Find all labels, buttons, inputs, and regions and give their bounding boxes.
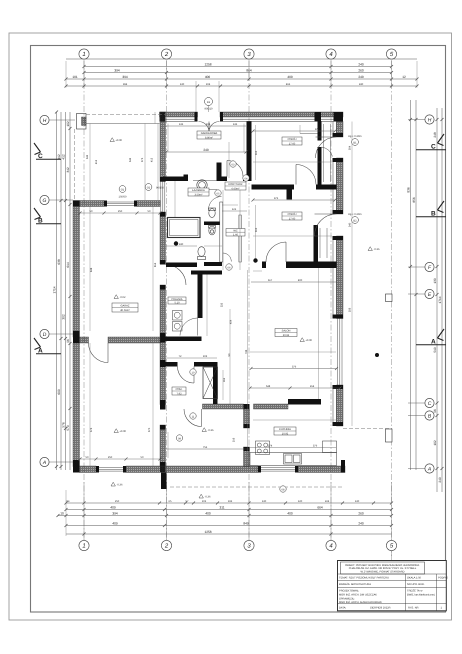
svg-text:A: A bbox=[427, 467, 432, 473]
dim top wall 136/104/136 row bbox=[166, 123, 247, 126]
bedroom05 closet wall vertical bbox=[318, 122, 322, 141]
dim salon row 548/214 bbox=[249, 385, 342, 390]
label kotlownia bbox=[172, 387, 186, 395]
boiler room walls bbox=[166, 362, 178, 367]
svg-text:SPRAWDZIŁ:: SPRAWDZIŁ: bbox=[339, 597, 355, 600]
level mark terrace bbox=[110, 138, 123, 142]
svg-text:2: 2 bbox=[164, 543, 169, 550]
dim bedroom05 376 bbox=[252, 128, 337, 133]
top axis line bbox=[66, 58, 417, 60]
window spec circle 150/50 bbox=[119, 186, 127, 199]
svg-text:1: 1 bbox=[82, 543, 85, 550]
svg-text:POKÓJ: POKÓJ bbox=[288, 137, 297, 141]
label korytarz bbox=[225, 182, 246, 190]
svg-text:250: 250 bbox=[118, 210, 123, 213]
svg-text:3.50m²: 3.50m² bbox=[194, 193, 202, 196]
entrance door leaf+arc in top wall bbox=[199, 122, 220, 133]
axis circle E right bbox=[408, 289, 434, 298]
level mark garage bbox=[114, 295, 126, 299]
spec circles corridor bbox=[176, 161, 286, 492]
section marker A right bbox=[416, 329, 446, 346]
svg-text:7.92: 7.92 bbox=[176, 392, 182, 395]
kitchen top wall hatched bbox=[203, 404, 289, 409]
svg-text:214: 214 bbox=[310, 385, 315, 388]
chimney shaft with X bbox=[203, 367, 218, 399]
axis circle A left bbox=[40, 457, 73, 466]
svg-text:102: 102 bbox=[66, 121, 70, 127]
svg-text:400: 400 bbox=[298, 279, 303, 282]
svg-text:H: H bbox=[43, 118, 47, 124]
axis circle C right bbox=[408, 398, 434, 407]
svg-text:504: 504 bbox=[349, 145, 352, 150]
svg-text:BWGJ architektonicznej: BWGJ architektonicznej bbox=[407, 593, 435, 596]
svg-text:DATA:: DATA: bbox=[339, 606, 347, 609]
right wall balcony door 1 leaf+arc bbox=[316, 137, 337, 158]
wc label box bbox=[226, 229, 245, 237]
axis circle H right bbox=[408, 115, 434, 124]
svg-text:D1: D1 bbox=[207, 101, 211, 104]
dim row under bedroom06 400 bbox=[251, 279, 337, 282]
pralnia south wall bbox=[166, 337, 202, 342]
svg-text:-0.02: -0.02 bbox=[120, 296, 126, 299]
level mark right terrace bbox=[368, 247, 380, 251]
svg-text:256: 256 bbox=[349, 307, 352, 312]
top dimension row 4 ticks bbox=[65, 85, 419, 88]
toilet 1 bbox=[209, 208, 216, 217]
svg-text:130: 130 bbox=[433, 278, 437, 284]
svg-text:17.60: 17.60 bbox=[289, 217, 296, 220]
door spec circle right 2 bbox=[348, 213, 361, 223]
main spine wall (x160) hatched/black bbox=[160, 112, 166, 467]
svg-text:548: 548 bbox=[266, 385, 271, 388]
svg-text:240: 240 bbox=[179, 243, 184, 246]
svg-text:-0.36: -0.36 bbox=[374, 248, 380, 251]
svg-text:510: 510 bbox=[433, 347, 437, 353]
svg-text:342: 342 bbox=[66, 167, 70, 173]
right vertical dim chains bbox=[409, 100, 444, 492]
label bedroom 06 bbox=[282, 212, 302, 220]
svg-text:A: A bbox=[42, 460, 47, 466]
svg-text:638: 638 bbox=[90, 267, 93, 272]
svg-text:GARAŻ: GARAŻ bbox=[121, 304, 130, 308]
right wall balcony door 2 leaf+arc bbox=[315, 214, 337, 236]
wc wall bbox=[166, 263, 197, 268]
level mark salon bbox=[300, 338, 313, 342]
kitchen stove 4 burners bbox=[256, 441, 270, 455]
right wall inner face line bbox=[333, 122, 337, 427]
dim salon 376 bbox=[250, 366, 339, 371]
svg-text:130: 130 bbox=[262, 500, 267, 503]
label garderoba bbox=[197, 131, 221, 139]
svg-text:PROJEKTOWAŁ:: PROJEKTOWAŁ: bbox=[339, 589, 359, 592]
wc door arc bbox=[223, 253, 232, 262]
svg-text:104: 104 bbox=[206, 83, 211, 86]
svg-text:TREŚĆ TA-w: TREŚĆ TA-w bbox=[407, 588, 422, 592]
svg-text:-0.36: -0.36 bbox=[208, 429, 214, 432]
svg-text:373: 373 bbox=[141, 157, 144, 162]
kitchen left wall hatched bbox=[244, 409, 250, 467]
svg-text:1258: 1258 bbox=[204, 530, 211, 534]
svg-text:1714: 1714 bbox=[438, 296, 442, 303]
svg-text:836: 836 bbox=[407, 187, 411, 193]
svg-text:400: 400 bbox=[205, 75, 211, 79]
svg-text:121: 121 bbox=[232, 208, 237, 211]
svg-text:394: 394 bbox=[112, 512, 118, 516]
svg-text:1258: 1258 bbox=[204, 63, 211, 67]
svg-text:576: 576 bbox=[62, 422, 66, 428]
section marker C left bbox=[34, 143, 61, 160]
svg-text:RYS. NR: RYS. NR bbox=[408, 606, 419, 609]
title block row texts bbox=[339, 576, 448, 609]
label garaz bbox=[112, 303, 138, 312]
kitchen counter bbox=[250, 453, 337, 466]
top dimension row 2 bbox=[83, 71, 394, 74]
svg-text:192: 192 bbox=[228, 500, 233, 503]
svg-text:376: 376 bbox=[292, 366, 297, 369]
interior wall under bedroom05 horizontal bbox=[252, 185, 295, 190]
svg-text:130: 130 bbox=[355, 500, 360, 503]
svg-text:302: 302 bbox=[62, 314, 66, 320]
svg-text:260: 260 bbox=[358, 512, 364, 516]
corridor horizontal wall bbox=[191, 271, 222, 275]
toilet 2 wc bbox=[198, 247, 206, 260]
svg-text:NR UPR. BUD.: NR UPR. BUD. bbox=[407, 583, 425, 586]
section marker A left bbox=[34, 338, 61, 355]
svg-text:MGR INŻ. ARCH. DM USZCZAK: MGR INŻ. ARCH. DM USZCZAK bbox=[339, 592, 377, 596]
svg-text:400: 400 bbox=[205, 512, 211, 516]
svg-text:400: 400 bbox=[287, 512, 293, 516]
svg-text:12: 12 bbox=[402, 75, 406, 79]
svg-text:240: 240 bbox=[349, 222, 352, 227]
axis circle 5 top bbox=[386, 49, 396, 59]
svg-text:248: 248 bbox=[433, 132, 437, 138]
bottom dimension row 3 bbox=[57, 514, 394, 517]
svg-text:617: 617 bbox=[268, 279, 273, 282]
svg-text:274: 274 bbox=[268, 445, 273, 448]
svg-text:KORYTARZ: KORYTARZ bbox=[229, 183, 243, 186]
svg-text:-0.36: -0.36 bbox=[117, 484, 123, 487]
svg-text:WC: WC bbox=[233, 230, 237, 233]
svg-text:MGR INŻ. ARCH. ALMA KARUZDAS: MGR INŻ. ARCH. ALMA KARUZDAS bbox=[339, 600, 382, 604]
svg-text:240: 240 bbox=[438, 477, 442, 483]
svg-text:SKALA 1:50: SKALA 1:50 bbox=[407, 576, 422, 579]
svg-text:240: 240 bbox=[358, 63, 364, 67]
interior wall under bedroom06 horizontal bbox=[262, 262, 266, 269]
divider door leaf+arc bbox=[89, 343, 109, 363]
window spec circle 90/150 bbox=[145, 184, 164, 191]
svg-text:332: 332 bbox=[221, 302, 224, 307]
closet strip lines bedroom06 bbox=[320, 228, 327, 258]
bedroom06 closet wall vertical bbox=[314, 225, 319, 262]
svg-text:102: 102 bbox=[433, 440, 437, 446]
svg-text:376: 376 bbox=[274, 197, 279, 200]
bidet bbox=[209, 226, 216, 235]
door spec circle right 1 bbox=[348, 135, 361, 145]
section marker B right bbox=[416, 201, 446, 218]
bath divider half wall bbox=[204, 222, 220, 226]
svg-text:90/210: 90/210 bbox=[205, 108, 213, 111]
inner drawing frame bbox=[31, 46, 446, 613]
svg-text:±0.00: ±0.00 bbox=[306, 339, 313, 342]
garage divider wall hatched bbox=[80, 337, 161, 343]
kitchen top wall black piece bbox=[288, 399, 321, 405]
door spec circle entrance bbox=[205, 98, 214, 113]
door bedroom06 leaf+arc bbox=[266, 242, 286, 262]
junction dot 1 bbox=[174, 241, 178, 245]
axis circle 2 bottom bbox=[161, 540, 171, 550]
axis circle B right bbox=[408, 411, 434, 420]
svg-text:G: G bbox=[43, 198, 47, 204]
top wall corner piers bbox=[160, 112, 166, 122]
right terrace column 2 bbox=[386, 429, 393, 442]
svg-text:96: 96 bbox=[433, 409, 437, 413]
axis circle D left bbox=[40, 329, 73, 338]
label lazienka bbox=[188, 188, 209, 196]
room03 bottom dim row bbox=[79, 456, 162, 461]
svg-text:96: 96 bbox=[66, 339, 70, 343]
svg-text:PODPIS: PODPIS bbox=[438, 576, 448, 579]
svg-text:5.10: 5.10 bbox=[174, 302, 180, 305]
bedroom interior vlines bbox=[168, 124, 336, 459]
bottom dimension row 2 bbox=[65, 508, 394, 511]
svg-text:POM.: POM. bbox=[176, 388, 183, 391]
axis circle 5 bottom bbox=[386, 540, 396, 550]
right exterior wall hatched bbox=[337, 122, 344, 427]
svg-text:1714: 1714 bbox=[53, 286, 57, 293]
kitchen-terrace door leaf+arc bbox=[184, 409, 202, 427]
spine wall window (90/150) lines bbox=[161, 182, 165, 213]
washer squares bbox=[173, 311, 183, 332]
central vertical wall bbox=[198, 275, 203, 319]
level mark bottom terrace bbox=[202, 428, 214, 432]
svg-text:Hg = 0.30m: Hg = 0.30m bbox=[348, 213, 361, 216]
svg-text:6.60m²: 6.60m² bbox=[231, 187, 239, 190]
label salon bbox=[275, 329, 297, 337]
garage top exterior wall hatched bbox=[80, 201, 161, 207]
svg-text:638: 638 bbox=[57, 259, 61, 265]
svg-text:250: 250 bbox=[108, 456, 113, 459]
svg-text:394: 394 bbox=[122, 75, 128, 79]
svg-text:250: 250 bbox=[115, 500, 120, 503]
axis circle G left bbox=[40, 195, 73, 204]
svg-text:664: 664 bbox=[317, 506, 323, 510]
svg-text:O1: O1 bbox=[121, 189, 125, 192]
svg-text:-0.36: -0.36 bbox=[205, 496, 211, 499]
svg-text:376: 376 bbox=[313, 445, 318, 448]
axis circle 1 bottom bbox=[79, 540, 89, 550]
garage left wall corner piers bbox=[73, 201, 80, 207]
terrace top-left column bbox=[77, 114, 87, 130]
axis circle 3 top bbox=[244, 49, 254, 59]
svg-text:162: 162 bbox=[223, 377, 226, 382]
svg-text:101: 101 bbox=[72, 75, 78, 79]
bath door arc bbox=[209, 197, 222, 210]
left vertical dim chains bbox=[55, 111, 72, 471]
bottom exterior wall hatched bbox=[80, 466, 346, 473]
svg-text:102: 102 bbox=[202, 500, 207, 503]
svg-text:412: 412 bbox=[62, 154, 66, 160]
label kuchnia bbox=[274, 427, 296, 435]
svg-text:10: 10 bbox=[60, 512, 64, 516]
right wall glass slider window lines bbox=[338, 319, 343, 386]
svg-text:240: 240 bbox=[358, 75, 364, 79]
interior vertical dim lines bbox=[90, 112, 352, 466]
svg-text:30.92: 30.92 bbox=[283, 334, 290, 337]
svg-text:150/50: 150/50 bbox=[119, 196, 127, 199]
svg-text:H: H bbox=[428, 118, 432, 124]
svg-text:570: 570 bbox=[66, 425, 70, 431]
svg-text:576: 576 bbox=[90, 427, 93, 432]
axis circle H left bbox=[40, 115, 75, 124]
svg-text:40.56m²: 40.56m² bbox=[120, 309, 130, 312]
svg-text:120: 120 bbox=[298, 500, 303, 503]
svg-text:B1: B1 bbox=[353, 142, 357, 145]
right terrace dashed edge bbox=[343, 428, 392, 430]
wc thin wall 2 bbox=[239, 215, 241, 262]
svg-text:130: 130 bbox=[180, 83, 185, 86]
svg-text:±0.00: ±0.00 bbox=[120, 430, 127, 433]
dim terrace bottom 756 bbox=[166, 446, 249, 449]
svg-text:8.80m²: 8.80m² bbox=[205, 136, 213, 139]
axis circle 2 top bbox=[161, 49, 171, 59]
svg-text:315: 315 bbox=[255, 227, 258, 232]
svg-text:260: 260 bbox=[358, 69, 364, 73]
closet strip lines bedroom05 bbox=[300, 124, 331, 182]
svg-text:409: 409 bbox=[112, 522, 118, 526]
svg-text:756: 756 bbox=[203, 446, 208, 449]
kitchen fridge bbox=[323, 441, 337, 453]
top exterior wall hatched band bbox=[160, 112, 344, 117]
dim garderoba 240 bbox=[165, 148, 248, 154]
label pralnia bbox=[168, 297, 186, 305]
svg-text:614: 614 bbox=[66, 262, 70, 268]
svg-text:400: 400 bbox=[287, 75, 293, 79]
section marker B left bbox=[34, 208, 61, 225]
spine wall stub below bottom wall bbox=[161, 473, 167, 490]
svg-text:342: 342 bbox=[86, 154, 89, 159]
right chain numbers bbox=[407, 132, 443, 483]
svg-text:Hg = 0.30m: Hg = 0.30m bbox=[348, 135, 361, 138]
top dim extension lines bbox=[66, 61, 417, 112]
svg-text:SIERPIEŃ 2022R: SIERPIEŃ 2022R bbox=[370, 605, 391, 609]
kitchen double sink bbox=[284, 454, 302, 465]
bottom dimension row 5 bbox=[66, 533, 392, 536]
small rooms cluster walls bbox=[163, 177, 184, 182]
svg-text:614: 614 bbox=[154, 262, 157, 267]
top dimension row 1 bbox=[83, 65, 394, 68]
svg-text:136: 136 bbox=[233, 123, 238, 126]
terrace left dashed edge bbox=[74, 129, 76, 200]
closet door arc bedroom05 bbox=[322, 147, 333, 157]
svg-text:216: 216 bbox=[233, 437, 236, 442]
svg-text:542: 542 bbox=[129, 157, 132, 162]
svg-text:103: 103 bbox=[203, 355, 208, 358]
bath/wc thin wall bbox=[220, 202, 223, 262]
level mark room03 bbox=[114, 429, 127, 433]
svg-text:ŁAZIENKA: ŁAZIENKA bbox=[192, 189, 205, 192]
spine wall jamb piers bbox=[160, 177, 166, 182]
label bedroom 05 bbox=[282, 137, 302, 145]
left chain numbers bbox=[53, 121, 71, 431]
bottom terrace dashed edge bbox=[166, 473, 343, 488]
svg-text:GARDEROBA: GARDEROBA bbox=[201, 132, 218, 135]
svg-text:394: 394 bbox=[123, 83, 128, 86]
axis circle 4 top bbox=[326, 49, 336, 59]
svg-text:BRANŻA: ARCHITEKTURA: BRANŻA: ARCHITEKTURA bbox=[339, 582, 371, 586]
svg-text:±0.00: ±0.00 bbox=[116, 139, 123, 142]
svg-text:104: 104 bbox=[206, 123, 211, 126]
svg-text:2: 2 bbox=[164, 51, 169, 58]
svg-text:SALON: SALON bbox=[282, 330, 291, 333]
boiler door leaf+arc bbox=[178, 367, 195, 384]
svg-text:W ZYWKOWIE, POWIAT STARGARD: W ZYWKOWIE, POWIAT STARGARD bbox=[361, 571, 405, 574]
right terrace column 1 bbox=[386, 294, 393, 302]
svg-text:570: 570 bbox=[148, 427, 151, 432]
garage top wall window (150/50) bbox=[104, 202, 137, 205]
svg-text:17.60: 17.60 bbox=[289, 142, 296, 145]
rotated interior dims bbox=[86, 145, 352, 442]
corridor small dim rows bbox=[166, 243, 197, 246]
top dimension row 3 bbox=[65, 78, 419, 81]
svg-text:D: D bbox=[43, 332, 47, 338]
svg-text:90/150: 90/150 bbox=[156, 187, 164, 190]
svg-text:240: 240 bbox=[203, 148, 209, 152]
svg-text:376: 376 bbox=[315, 128, 320, 131]
svg-text:KUCHNIA: KUCHNIA bbox=[279, 428, 291, 431]
shower / storage box bbox=[168, 218, 201, 238]
garage top dim row bbox=[79, 210, 162, 215]
svg-text:466: 466 bbox=[286, 83, 291, 86]
axis circle A right bbox=[408, 464, 434, 473]
svg-text:600: 600 bbox=[57, 389, 61, 395]
junction dot 2 bbox=[253, 258, 257, 262]
svg-text:O2: O2 bbox=[147, 187, 151, 190]
top wall inner face lines bbox=[160, 119, 344, 121]
pralnia door arc bbox=[180, 318, 198, 336]
svg-text:412: 412 bbox=[151, 157, 154, 162]
svg-text:POKÓJ: POKÓJ bbox=[288, 212, 297, 216]
svg-text:240: 240 bbox=[359, 83, 364, 86]
svg-text:1.60: 1.60 bbox=[233, 234, 239, 237]
spine door to corridor leaf+arc bbox=[166, 265, 187, 286]
terrace top edge lines bbox=[86, 114, 166, 116]
svg-text:240: 240 bbox=[358, 522, 364, 526]
bottom dimension row 1 small bbox=[65, 502, 394, 505]
dim bedroom06 376 bbox=[252, 197, 337, 202]
svg-text:B2: B2 bbox=[353, 220, 357, 223]
bath round sink bbox=[193, 180, 217, 190]
svg-text:1: 1 bbox=[82, 51, 85, 58]
axis circle F right bbox=[408, 262, 434, 271]
door korytarz-garderoba leaf+arc bbox=[227, 161, 243, 177]
section marker C right bbox=[416, 134, 446, 151]
svg-text:394: 394 bbox=[114, 69, 120, 73]
svg-text:10.92: 10.92 bbox=[282, 432, 289, 435]
title block header text bbox=[345, 564, 420, 574]
svg-text:TEMAT: RZUT POZIOMU KOLF PARTE: TEMAT: RZUT POZIOMU KOLF PARTERU bbox=[339, 576, 389, 579]
junction dot 3 bbox=[375, 353, 379, 357]
axis circle 1 top bbox=[79, 49, 89, 59]
svg-text:136: 136 bbox=[179, 123, 184, 126]
svg-text:412: 412 bbox=[95, 159, 98, 164]
bottom dimension row 4 bbox=[65, 524, 394, 527]
svg-text:C: C bbox=[428, 401, 432, 407]
svg-text:315: 315 bbox=[255, 150, 258, 155]
right wall jamb piers bbox=[333, 133, 344, 137]
bottom wall windows bbox=[96, 468, 298, 472]
svg-text:PRALNIA: PRALNIA bbox=[171, 298, 182, 301]
axis circle 3 bottom bbox=[244, 540, 254, 550]
